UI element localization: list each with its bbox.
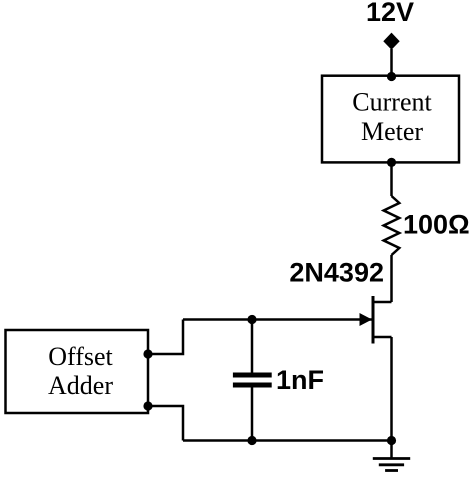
transistor Q1 drain lead: [373, 301, 392, 304]
ground symbol: [373, 441, 410, 471]
junction dot at capacitor bottom: [247, 436, 256, 445]
transistor Q1 gate wire: [183, 318, 372, 321]
bottom ground wire: [183, 439, 392, 442]
transistor Q1 JFET channel bar: [372, 296, 375, 344]
capacitor C1 bottom wire: [251, 388, 254, 441]
junction dot at capacitor top: [247, 315, 256, 324]
junction dot at current meter top: [387, 72, 396, 81]
terminal dot offset adder upper output: [143, 349, 152, 358]
wire lower stub from offset adder: [148, 406, 183, 441]
wire upper stub from offset adder: [148, 320, 183, 355]
svg-text:100Ω: 100Ω: [403, 210, 470, 240]
svg-text:Current: Current: [352, 88, 432, 117]
svg-text:Adder: Adder: [48, 371, 113, 400]
transistor Q1 gate arrowhead: [360, 313, 373, 326]
current meter block: [322, 76, 459, 163]
capacitor C1 bottom plate: [233, 383, 272, 388]
wire from 12V supply to current meter: [390, 49, 393, 77]
svg-text:1nF: 1nF: [276, 365, 324, 395]
svg-text:12V: 12V: [366, 0, 414, 27]
svg-text:Offset: Offset: [48, 342, 113, 371]
svg-text:Meter: Meter: [361, 117, 423, 146]
junction dot at current meter bottom: [387, 158, 396, 167]
power symbol (diamond) 12V supply: [383, 33, 399, 50]
svg-text:2N4392: 2N4392: [289, 258, 384, 288]
wire from transistor source to ground node: [390, 337, 393, 441]
wire from resistor R1 to transistor drain: [390, 255, 393, 302]
resistor R1 zigzag: [384, 196, 400, 255]
capacitor C1 top wire: [251, 320, 254, 373]
wire from current meter to resistor R1: [390, 162, 393, 196]
terminal dot offset adder lower output: [143, 401, 152, 410]
offset adder block: [6, 330, 149, 413]
junction dot at ground node: [387, 436, 396, 445]
capacitor C1 top plate: [233, 373, 272, 378]
transistor Q1 source lead: [373, 336, 392, 339]
